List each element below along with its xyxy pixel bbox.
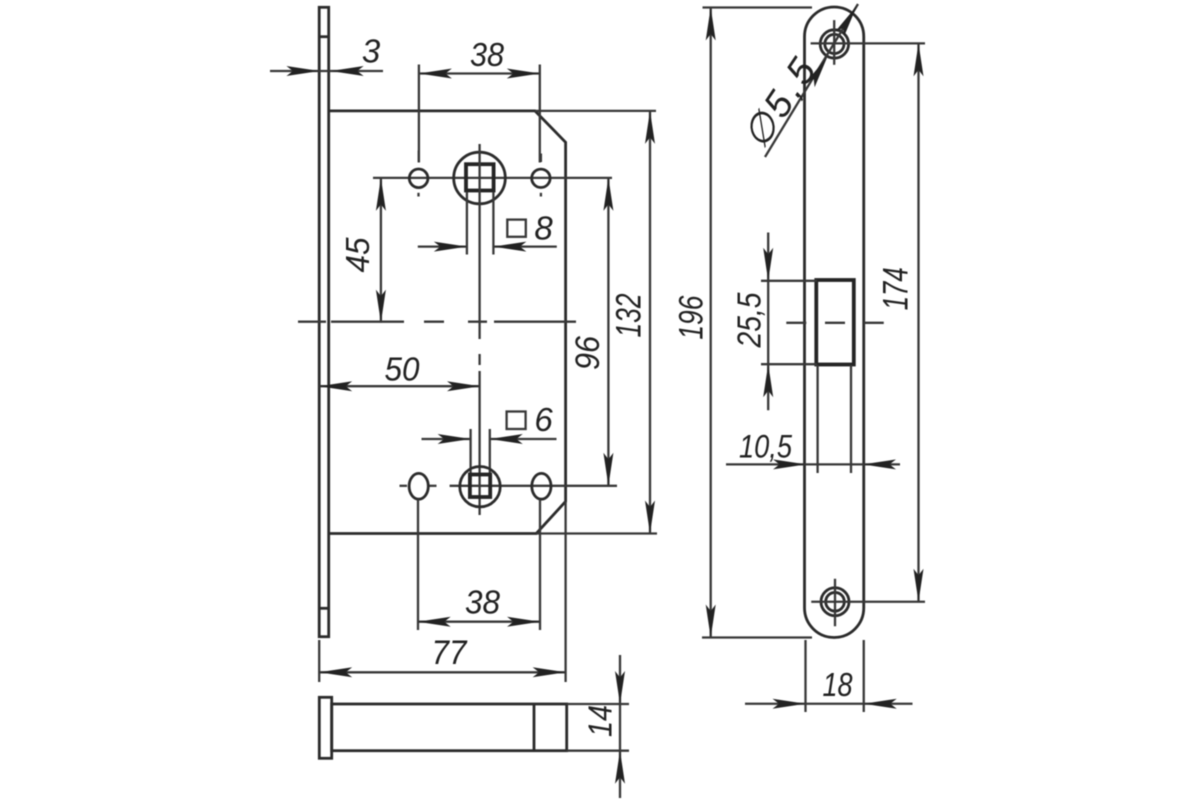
svg-text:196: 196 xyxy=(672,296,710,340)
svg-text:14: 14 xyxy=(582,705,619,737)
svg-text:10,5: 10,5 xyxy=(739,429,792,465)
svg-text:132: 132 xyxy=(610,294,649,338)
svg-text:8: 8 xyxy=(534,210,553,247)
svg-text:38: 38 xyxy=(470,36,505,73)
svg-text:174: 174 xyxy=(877,267,916,310)
svg-text:45: 45 xyxy=(339,237,376,273)
svg-text:96: 96 xyxy=(569,336,607,370)
svg-text:18: 18 xyxy=(823,666,854,703)
svg-text:77: 77 xyxy=(432,634,468,672)
svg-text:50: 50 xyxy=(385,351,421,388)
svg-text:25,5: 25,5 xyxy=(731,292,768,348)
svg-text:3: 3 xyxy=(362,33,381,70)
svg-text:6: 6 xyxy=(534,401,553,438)
svg-text:38: 38 xyxy=(465,584,501,621)
